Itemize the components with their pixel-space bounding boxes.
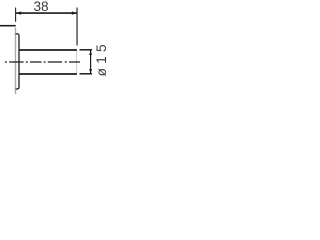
svg-text:38: 38 — [33, 0, 48, 14]
svg-text:ø15: ø15 — [94, 40, 109, 76]
